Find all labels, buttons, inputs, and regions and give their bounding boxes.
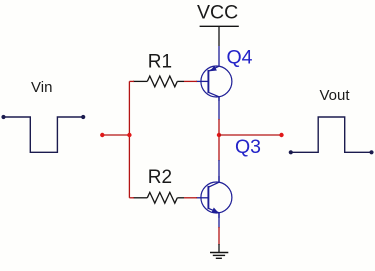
wire VCC bar to Q4 collector <box>218 26 220 46</box>
node Vin right terminal <box>81 115 85 119</box>
wire R1 to Q4 base <box>184 80 197 82</box>
Vout waveform <box>291 117 372 152</box>
wire input node to left rail <box>102 134 129 136</box>
transistor Q4 <box>196 46 232 101</box>
ground <box>210 253 228 259</box>
node output terminal <box>279 133 283 137</box>
svg-text:Q4: Q4 <box>227 46 253 68</box>
svg-text:Vout: Vout <box>320 87 351 104</box>
wire left vertical rail <box>128 81 130 197</box>
wire output junction to output terminal <box>219 134 282 136</box>
wire R2 to Q3 base <box>184 197 197 199</box>
power symbol VCC <box>200 25 239 27</box>
svg-text:Q3: Q3 <box>235 136 261 158</box>
resistor R2 <box>133 192 184 203</box>
wire Q3 collector stub (lower blue) <box>218 160 220 182</box>
node input terminal <box>100 133 104 137</box>
node left rail junction <box>127 133 131 137</box>
wire Q4 emitter to output node (upper blue stub) <box>218 97 220 120</box>
wire rail corner to R1 <box>129 80 134 82</box>
node Vout right terminal <box>369 150 373 154</box>
node Vout left terminal <box>289 150 293 154</box>
wire red segment above ground <box>218 227 220 245</box>
resistor R1 <box>133 76 184 87</box>
Vin waveform <box>3 117 84 152</box>
svg-text:Vin: Vin <box>31 79 52 96</box>
wire black segment into ground <box>218 244 220 253</box>
transistor Q3 <box>196 176 232 218</box>
svg-text:VCC: VCC <box>197 1 238 23</box>
wire rail corner to R2 <box>129 197 134 199</box>
svg-text:R1: R1 <box>148 52 172 73</box>
svg-text:R2: R2 <box>148 167 172 188</box>
node Vin left terminal <box>1 115 5 119</box>
wire Q3 emitter to ground: blue stub <box>218 213 220 228</box>
wire middle red segment <box>218 119 220 161</box>
node output junction <box>217 133 221 137</box>
